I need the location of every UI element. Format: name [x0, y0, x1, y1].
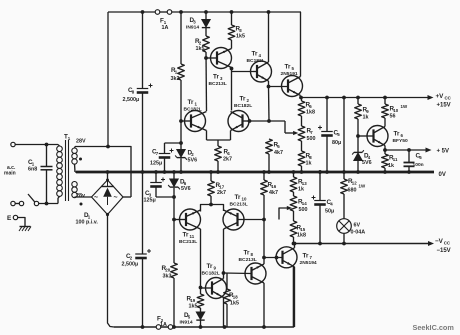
fuse F1 1A — [155, 10, 160, 15]
transformer polarity dot upper — [79, 158, 82, 161]
transistor Tr2 BC182L — [228, 111, 249, 132]
resistor R1 3k3 — [180, 12, 182, 64]
svg-text:CC: CC — [445, 96, 452, 101]
svg-text:17: 17 — [219, 185, 224, 190]
resistor R11 1k — [384, 150, 386, 154]
svg-text:125μ: 125μ — [150, 161, 162, 167]
node Tr9 base junction — [199, 286, 203, 290]
svg-text:16: 16 — [271, 184, 276, 189]
svg-text:4k7: 4k7 — [269, 190, 278, 196]
svg-text:5V6: 5V6 — [181, 186, 191, 192]
node 0V rail junctions — [141, 170, 145, 174]
wire Tr2 base to R5 and R7 wiper — [250, 120, 286, 122]
svg-text:BC182L: BC182L — [202, 271, 220, 277]
zener D4 5V6 — [354, 153, 362, 161]
wire R2 to Tr1 collector — [205, 52, 208, 111]
svg-text:2k7: 2k7 — [223, 157, 232, 163]
node +Vcc rail start — [299, 96, 303, 100]
svg-text:19: 19 — [190, 298, 195, 303]
svg-text:BC213L: BC213L — [209, 81, 227, 87]
wire Tr11/Tr10 emitter link — [201, 205, 224, 212]
capacitor C2 2500u — [135, 253, 147, 255]
transistor Tr7 2N5194 — [276, 247, 297, 268]
transformer T1 core — [65, 140, 67, 201]
svg-text:2k7: 2k7 — [217, 190, 226, 196]
svg-text:4k7: 4k7 — [274, 150, 283, 156]
svg-text:5V6: 5V6 — [362, 160, 372, 166]
svg-text:1k: 1k — [388, 163, 394, 169]
fuse F2 1A — [156, 325, 161, 330]
svg-text:125μ: 125μ — [144, 198, 156, 204]
diode symbol inside bridge D1 — [101, 186, 114, 188]
svg-text:18: 18 — [233, 295, 238, 300]
svg-text:10: 10 — [242, 197, 247, 202]
transistor Tr4 BC182L — [251, 61, 272, 82]
svg-text:100 p.i.v.: 100 p.i.v. — [76, 220, 99, 226]
svg-text:+15V: +15V — [437, 103, 451, 109]
svg-text:5V6: 5V6 — [188, 158, 198, 164]
transformer T1 secondary upper winding 28V — [74, 147, 77, 149]
switch S1 — [15, 203, 19, 205]
wire secondary-top to bridge via jog — [75, 147, 131, 198]
svg-text:15: 15 — [300, 227, 305, 232]
svg-text:BFY50: BFY50 — [393, 138, 409, 144]
svg-text:3k3: 3k3 — [171, 76, 180, 82]
wire bridge bottom to bottom rail — [108, 215, 115, 328]
svg-text:Tr: Tr — [207, 263, 213, 270]
resistor R4 2k7 — [217, 140, 219, 146]
node Tr9 collector junction — [222, 271, 226, 275]
node Tr3 base junction — [204, 56, 208, 60]
lamp 6V 0.04A — [337, 219, 352, 234]
wire R14 wiper jog — [279, 208, 289, 220]
node top rail C8 junction — [141, 10, 145, 14]
node Tr7 collector -Vcc junction — [293, 242, 297, 246]
svg-text:13: 13 — [302, 181, 307, 186]
ground symbol — [20, 226, 31, 228]
svg-text:Tr: Tr — [213, 74, 219, 81]
capacitor C8 2500u — [137, 88, 149, 90]
svg-text:Tr: Tr — [244, 250, 250, 257]
svg-text:IN914: IN914 — [180, 320, 193, 326]
wire Tr9 collector node to Tr8 base — [224, 272, 252, 275]
terminal AC live — [11, 142, 15, 146]
wire smoothing column C8/C2 vertical — [142, 12, 144, 88]
svg-text:500: 500 — [307, 136, 316, 142]
wire Tr7 base wire — [264, 257, 282, 259]
svg-text:1W: 1W — [401, 104, 408, 109]
wire Tr2 emitter to common node — [230, 131, 232, 141]
node D5 bottom rail junction — [199, 325, 203, 329]
transistor Tr3 BC213L — [211, 48, 232, 69]
svg-text:1k8: 1k8 — [297, 233, 306, 239]
node top rail D3 junction — [204, 10, 208, 14]
wire Tr4 emitter to Tr5 base and R5 — [269, 86, 288, 88]
transistor Tr9 BC182L — [206, 278, 227, 299]
svg-text:2N5191: 2N5191 — [281, 71, 298, 77]
wiper arrow into R7 — [293, 131, 298, 135]
svg-text:100n: 100n — [413, 162, 424, 168]
svg-text:1k5: 1k5 — [236, 34, 245, 40]
resistor R8 1k — [301, 141, 303, 151]
svg-text:Tr: Tr — [235, 194, 241, 201]
svg-text:−15V: −15V — [437, 248, 451, 254]
svg-text:+ 5V: + 5V — [437, 149, 450, 155]
resistor R19 1k5 — [200, 288, 202, 295]
node top rail R1 junction — [179, 10, 183, 14]
svg-text:2,500μ: 2,500μ — [122, 262, 139, 268]
svg-text:BC182L: BC182L — [247, 58, 265, 64]
node Tr7 base junction — [262, 256, 266, 260]
terminal AC neutral — [11, 201, 15, 205]
svg-text:−V: −V — [435, 238, 444, 245]
wire common emitter link — [207, 139, 231, 141]
resistor R10 56 1W — [384, 98, 386, 105]
resistor R15 1k8 — [293, 211, 295, 221]
capacitor C4 50u — [318, 170, 322, 174]
svg-text:14: 14 — [302, 201, 307, 206]
node lamp -Vcc junction — [342, 242, 346, 246]
svg-text:11: 11 — [190, 234, 195, 239]
svg-text:500: 500 — [299, 207, 308, 213]
svg-text:BC213L: BC213L — [239, 257, 257, 263]
node Tr10 base junction — [262, 218, 266, 222]
resistor R9 1k — [357, 98, 359, 105]
bridge rectifier D1 diamond — [92, 180, 124, 215]
diode D3 1N914 — [205, 12, 207, 20]
svg-text:1W: 1W — [359, 184, 366, 189]
node R20 bottom rail junction — [172, 325, 176, 329]
wire bridge top vertex to 0V rail — [107, 172, 109, 180]
resistor R5 4k7 — [266, 139, 273, 154]
capacitor C6 100n — [407, 148, 411, 152]
svg-text:CC: CC — [444, 241, 451, 246]
svg-text:1A: 1A — [162, 25, 169, 31]
resistor R3 1k5 — [230, 10, 234, 14]
resistor R12 680 1W — [343, 172, 345, 179]
svg-text:2,500μ: 2,500μ — [123, 97, 140, 103]
svg-text:6n8: 6n8 — [28, 167, 37, 173]
capacitor C1 6n8 — [46, 145, 48, 167]
node C2 bottom rail junction — [141, 325, 145, 329]
node Tr11 base junction — [172, 218, 176, 222]
svg-text:Tr: Tr — [188, 99, 194, 106]
resistor R14 500 preset — [293, 192, 295, 196]
node secondary top junction — [106, 145, 110, 149]
node R10 top junction — [383, 96, 387, 100]
node -Vcc rail start — [292, 242, 296, 246]
svg-text:680: 680 — [348, 188, 357, 194]
svg-text:1k: 1k — [306, 161, 312, 167]
node Tr1 base junction — [179, 119, 183, 123]
svg-text:50μ: 50μ — [325, 209, 334, 215]
svg-text:1k: 1k — [363, 115, 369, 121]
svg-text:11: 11 — [393, 157, 398, 162]
wire Tr10 collector down to Tr8 base node — [223, 229, 225, 273]
resistor R17 2k7 — [210, 172, 212, 181]
node Tr3 collector junction — [230, 67, 234, 71]
node Tr4 emitter junction — [267, 85, 271, 89]
wire -Vcc output rail — [294, 243, 431, 245]
svg-text:SeekIC.com: SeekIC.com — [413, 323, 455, 332]
node C1 top junction — [45, 143, 49, 147]
node R17 emitter wire junction — [209, 203, 213, 207]
svg-text:28v: 28v — [76, 193, 85, 199]
wire link +Vcc to 0V column — [343, 98, 345, 173]
transistor Tr11 BC213L — [180, 209, 201, 230]
transformer polarity dot lower — [80, 203, 83, 206]
svg-text:main: main — [4, 171, 16, 177]
wire top-left vertical from top rail to transformer secondary — [107, 12, 109, 147]
svg-text:80μ: 80μ — [332, 140, 341, 146]
svg-text:Tr: Tr — [240, 96, 246, 103]
node Tr8 collector bottom junction — [262, 325, 266, 329]
svg-text:1k5: 1k5 — [196, 46, 205, 52]
resistor R18 1k5 — [226, 273, 228, 289]
node R9 top junction — [356, 96, 360, 100]
svg-text:~: ~ — [114, 195, 118, 202]
svg-text:20: 20 — [165, 268, 170, 273]
svg-text:IN914: IN914 — [186, 25, 199, 31]
resistor R13 1k — [292, 170, 296, 174]
svg-text:1k5: 1k5 — [230, 301, 239, 307]
svg-text:BC182L: BC182L — [234, 103, 252, 109]
resistor R16 4k7 — [263, 172, 265, 180]
svg-text:2N5194: 2N5194 — [300, 260, 317, 266]
wire R1 to D2 node — [180, 80, 182, 150]
wire switch to transformer — [39, 203, 58, 205]
node 0V rail (thick) — [76, 171, 434, 174]
svg-text:6V: 6V — [354, 223, 361, 229]
svg-text:1k5: 1k5 — [189, 304, 198, 310]
svg-text:Tr: Tr — [183, 232, 189, 239]
resistor R6 1k8 — [301, 98, 303, 102]
node bridge bottom vertex — [106, 213, 109, 216]
svg-text:28V: 28V — [76, 139, 86, 145]
node D6 C3 junction — [172, 195, 176, 199]
resistor R2 1k5 — [203, 36, 210, 52]
wire +Vcc output rail — [301, 97, 429, 99]
resistor R20 3k3 — [173, 220, 175, 264]
transformer T1 primary winding — [58, 145, 60, 147]
node +5V junction R11 — [383, 148, 387, 152]
svg-text:Tr: Tr — [285, 64, 291, 71]
svg-text:1A: 1A — [160, 322, 167, 328]
capacitor C7 125u — [165, 142, 182, 144]
wire secondary centre tap to 0V rail — [74, 164, 77, 172]
svg-text:Tr: Tr — [394, 131, 400, 138]
wire AC live to transformer — [15, 144, 58, 146]
wire bottom negative raw rail — [114, 267, 294, 328]
svg-text:10: 10 — [393, 108, 398, 113]
wire secondary bottom to bridge left vertex — [75, 196, 92, 198]
zener D2 5V6 — [177, 150, 185, 158]
svg-text:0V: 0V — [439, 172, 446, 178]
transistor Tr10 BC213L — [223, 209, 244, 230]
wire earth lead — [18, 218, 25, 227]
svg-text:BC213L: BC213L — [179, 239, 197, 245]
transistor Tr1 BC182L — [185, 111, 206, 132]
wire +5V output — [385, 149, 427, 151]
svg-text:0·04A: 0·04A — [351, 230, 366, 236]
wire top positive rail — [108, 11, 301, 13]
node Tr2 base junction — [248, 119, 252, 123]
svg-text:BC182L: BC182L — [184, 107, 202, 113]
transistor Tr5 2N5191 — [282, 76, 303, 97]
wire bridge right vertex link — [123, 196, 131, 198]
transistor Tr6 BFY50 — [367, 126, 388, 147]
transistor Tr8 BC213L — [245, 263, 266, 284]
svg-text:Tr: Tr — [252, 51, 258, 58]
svg-text:BC213L: BC213L — [230, 202, 248, 208]
node top rail Tr4 junction — [267, 10, 271, 14]
svg-text:56: 56 — [390, 114, 396, 120]
svg-text:Tr: Tr — [303, 253, 309, 260]
svg-text:3k3: 3k3 — [163, 274, 172, 280]
transformer T1 secondary lower winding 28V — [74, 181, 76, 182]
zener D6 5V6 — [173, 172, 175, 179]
svg-text:~: ~ — [94, 195, 98, 202]
capacitor C3 125u — [155, 172, 157, 183]
svg-text:E: E — [7, 215, 12, 222]
diode D5 1N914 — [200, 308, 202, 312]
svg-text:+V: +V — [436, 93, 445, 100]
wire Tr11 collector to Tr9 base — [200, 229, 202, 288]
node Tr6 base junction — [356, 134, 360, 138]
wire Tr3 collector to Tr4 base and Tr2 collector — [231, 69, 233, 111]
capacitor C5 80u — [326, 98, 328, 132]
svg-text:12: 12 — [352, 181, 357, 186]
svg-text:1k: 1k — [298, 187, 304, 193]
wire R16 node down to Tr7 base / Tr8 emitter — [263, 220, 265, 258]
node C1 bottom junction — [45, 202, 49, 206]
wire Tr1 emitter to common node — [206, 131, 208, 141]
resistor R7 500 preset — [301, 116, 303, 126]
svg-text:1k8: 1k8 — [306, 110, 315, 116]
